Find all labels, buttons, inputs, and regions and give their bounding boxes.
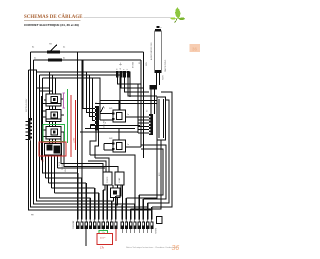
svg-text:6: 6 xyxy=(98,220,99,222)
svg-text:T: T xyxy=(123,69,125,70)
svg-text:C: C xyxy=(127,68,129,70)
svg-text:F1: F1 xyxy=(41,160,44,163)
svg-text:COM.MAT: COM.MAT xyxy=(72,220,75,229)
svg-text:F: F xyxy=(161,28,163,30)
svg-text:X2: X2 xyxy=(147,110,149,112)
svg-text:SCHEMAS DE CÂBLAGE: SCHEMAS DE CÂBLAGE xyxy=(24,14,83,20)
svg-text:4: 4 xyxy=(134,220,135,222)
svg-text:17b: 17b xyxy=(100,247,105,250)
svg-text:POMPE: POMPE xyxy=(107,176,109,183)
svg-text:N L: N L xyxy=(139,61,141,64)
svg-text:1: 1 xyxy=(77,220,78,222)
svg-text:TERRE: TERRE xyxy=(156,227,158,234)
svg-text:PE: PE xyxy=(31,215,34,217)
svg-text:KM2: KM2 xyxy=(109,138,113,140)
svg-text:230V: 230V xyxy=(146,61,148,66)
svg-text:5: 5 xyxy=(94,220,95,222)
svg-text:10: 10 xyxy=(115,220,117,222)
svg-text:1a: 1a xyxy=(127,144,129,146)
svg-text:1: 1 xyxy=(121,220,122,222)
svg-text:4x: 4x xyxy=(63,57,66,59)
svg-text:5: 5 xyxy=(138,220,139,222)
svg-text:+24V: +24V xyxy=(74,137,76,143)
svg-text:KM1: KM1 xyxy=(109,108,113,110)
svg-text:3: 3 xyxy=(130,220,131,222)
svg-text:7: 7 xyxy=(147,220,148,222)
svg-text:CARTE PRINC.: CARTE PRINC. xyxy=(164,59,167,72)
svg-text:ALIMENTATION 230V: ALIMENTATION 230V xyxy=(150,41,153,60)
svg-text:CIRC.IMP: CIRC.IMP xyxy=(104,119,106,128)
svg-text:8: 8 xyxy=(106,220,107,222)
svg-text:2x: 2x xyxy=(63,47,66,49)
svg-text:NOIR: NOIR xyxy=(163,75,165,80)
svg-text:6: 6 xyxy=(142,220,143,222)
svg-text:V.GAZ: V.GAZ xyxy=(118,177,121,183)
svg-text:8: 8 xyxy=(151,220,152,222)
svg-text:BR MA: BR MA xyxy=(132,62,135,68)
svg-text:POMPE: POMPE xyxy=(62,163,64,170)
svg-text:36: 36 xyxy=(192,47,197,52)
svg-text:L1: L1 xyxy=(120,68,122,70)
svg-text:2: 2 xyxy=(81,220,82,222)
svg-text:2: 2 xyxy=(125,220,126,222)
svg-text:3: 3 xyxy=(85,220,86,222)
svg-text:2: 2 xyxy=(104,108,105,110)
svg-text:SECTEUR 230V: SECTEUR 230V xyxy=(26,98,28,112)
svg-text:2x: 2x xyxy=(34,57,37,59)
svg-text:V3V: V3V xyxy=(65,168,67,172)
svg-text:7: 7 xyxy=(102,220,103,222)
svg-text:COFFRET ELECTRIQUE (34, 36 et: COFFRET ELECTRIQUE (34, 36 et 39) xyxy=(24,23,79,27)
svg-text:B10: B10 xyxy=(159,173,161,176)
svg-text:X1: X1 xyxy=(96,102,98,104)
svg-text:9: 9 xyxy=(111,220,112,222)
svg-text:1a: 1a xyxy=(127,114,129,116)
svg-text:TB: TB xyxy=(49,44,52,46)
svg-text:36: 36 xyxy=(172,245,180,252)
svg-text:24 V~: 24 V~ xyxy=(100,238,106,240)
svg-text:3x: 3x xyxy=(32,47,35,49)
svg-text:N: N xyxy=(117,68,119,70)
svg-text:4: 4 xyxy=(89,220,90,222)
